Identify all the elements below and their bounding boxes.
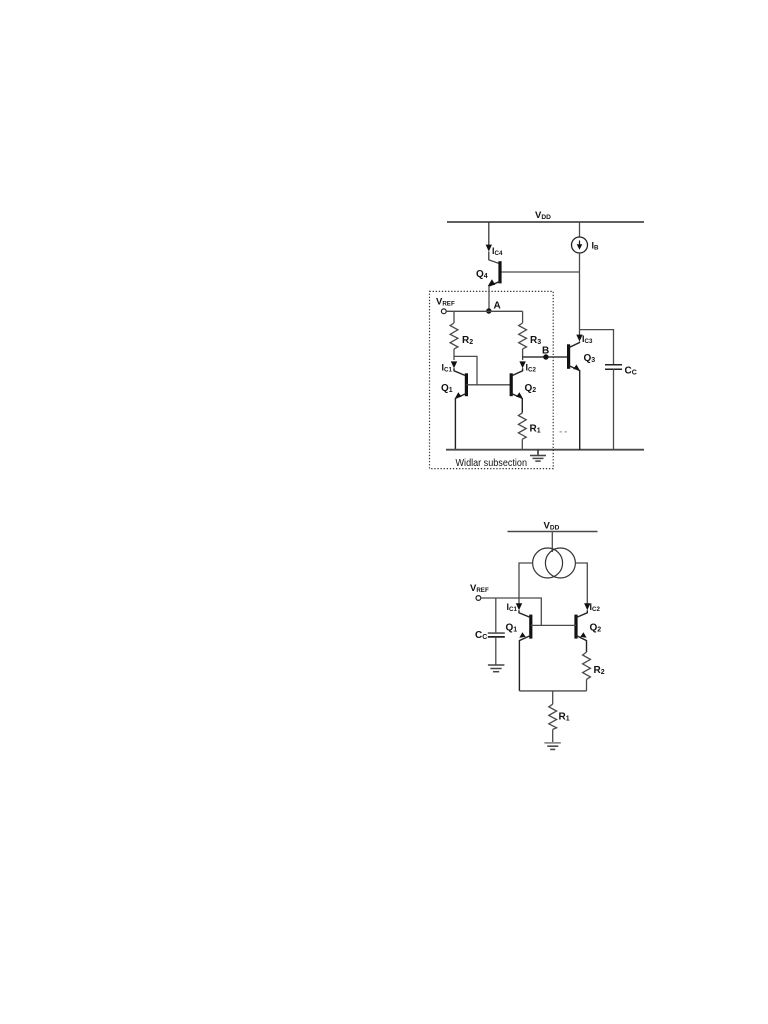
wire VREF branch down to R2: [453, 311, 455, 323]
ground (top circuit): [530, 450, 546, 461]
svg-text:IC1: IC1: [442, 363, 453, 374]
wire base line Q1-Q2 (bottom circuit): [531, 624, 576, 626]
terminal VREF (top circuit): [441, 309, 446, 314]
svg-text:R2: R2: [462, 335, 473, 346]
wire VDD to current mirror: [551, 532, 553, 553]
TOP CIRCUIT: [430, 210, 645, 469]
svg-text:CC: CC: [625, 366, 637, 377]
svg-text:Q1: Q1: [506, 623, 518, 634]
noise dots: [560, 431, 567, 433]
wire R3 to node B line: [522, 349, 524, 360]
wire down to Ic3 arrow: [579, 330, 581, 335]
wire R1 to bottom rail: [521, 439, 523, 449]
svg-text:R2: R2: [594, 665, 605, 676]
wire branch to Cc: [580, 330, 614, 364]
resistor R2 (bottom circuit): [583, 652, 591, 679]
svg-text:Q2: Q2: [525, 383, 537, 394]
svg-text:VDD: VDD: [544, 521, 560, 532]
BOTTOM CIRCUIT: [470, 521, 605, 750]
svg-text:IB: IB: [592, 241, 600, 252]
capacitor Cc (top circuit): [605, 365, 622, 450]
wire emitter bottom rail (bottom circuit): [519, 690, 586, 692]
svg-text:Q4: Q4: [476, 269, 488, 280]
wire R2 to bottom node: [586, 679, 588, 691]
current arrow Ic1 (bottom circuit): [516, 603, 522, 610]
wire VDD rail (bottom circuit): [508, 531, 598, 533]
svg-text:IC1: IC1: [507, 602, 518, 613]
transistor Q3: [569, 342, 580, 450]
wire to R1 (bottom circuit): [552, 691, 554, 704]
wire Q4 emitter to node A: [488, 286, 490, 311]
wire base line Q1-Q2 (top circuit): [466, 384, 511, 386]
wire Cc branch down: [495, 598, 497, 633]
transistor Q1 (bottom circuit): [519, 610, 531, 691]
svg-text:R3: R3: [530, 335, 541, 346]
wire bottom rail (top circuit): [446, 449, 644, 451]
svg-text:VREF: VREF: [436, 297, 455, 308]
wire R1 to ground (bottom circuit): [552, 729, 554, 742]
current arrow Ic2 (top circuit): [519, 361, 525, 368]
svg-text:VREF: VREF: [470, 583, 489, 594]
wire Ic4 arrow to Q4 collector: [489, 252, 500, 264]
svg-text:R1: R1: [530, 424, 541, 435]
svg-text:VDD: VDD: [535, 210, 551, 221]
resistor R1 (bottom circuit): [549, 704, 557, 729]
current arrow Ic4: [486, 245, 492, 252]
terminal VREF (bottom circuit): [476, 596, 481, 601]
wire Q1 collector-to-base (diode connection): [454, 356, 477, 384]
wire mirror right to Q2 collector: [575, 563, 587, 606]
wire VDD to IB source: [579, 222, 581, 237]
wire node B line: [523, 356, 569, 358]
transistor Q4: [488, 261, 500, 286]
svg-text:IC4: IC4: [492, 246, 503, 257]
svg-text:IC2: IC2: [590, 602, 601, 613]
current arrow Ic3: [576, 335, 582, 342]
svg-text:Q2: Q2: [590, 623, 602, 634]
resistor R1 (top circuit): [518, 413, 526, 440]
svg-text:IC3: IC3: [582, 334, 593, 345]
wire Q4 base to IB branch: [502, 271, 580, 273]
wire node A rail (VREF to R3 branch): [446, 310, 522, 312]
transistor Q1 (top circuit): [454, 368, 466, 449]
transistor Q2 (bottom circuit): [576, 610, 587, 652]
resistor R2: [450, 323, 458, 349]
wire VREF to base branch: [481, 598, 542, 625]
current arrow Ic2 (bottom circuit): [584, 603, 590, 610]
svg-text:A: A: [494, 301, 501, 312]
wire VDD rail (top circuit): [447, 221, 644, 223]
node B: [543, 354, 548, 359]
svg-text:Widlar subsection: Widlar subsection: [456, 458, 528, 469]
svg-text:Q1: Q1: [441, 383, 453, 394]
svg-text:B: B: [542, 346, 549, 357]
current source IB: [572, 237, 588, 253]
node A: [486, 308, 491, 313]
capacitor Cc (bottom circuit): [488, 633, 505, 664]
transistor Q2 (top circuit): [511, 368, 522, 413]
current mirror circles: [533, 548, 576, 578]
wire IB to Q3 collector branch: [579, 253, 581, 330]
wire VDD to Ic4 arrow: [488, 222, 490, 245]
dashed box Widlar subsection: [430, 291, 554, 468]
svg-text:R1: R1: [559, 712, 570, 723]
current arrow Ic1 (top circuit): [451, 361, 457, 368]
svg-text:Q3: Q3: [584, 353, 596, 364]
wire mirror left to Q1 collector: [519, 563, 533, 606]
ground (bottom R1): [544, 743, 560, 750]
wire node A to R3: [522, 311, 524, 323]
svg-text:IC2: IC2: [526, 363, 537, 374]
ground (bottom Cc): [488, 665, 505, 672]
resistor R3: [519, 323, 527, 349]
svg-text:CC: CC: [475, 630, 487, 641]
wire R2 to Ic1/collector: [453, 349, 455, 360]
